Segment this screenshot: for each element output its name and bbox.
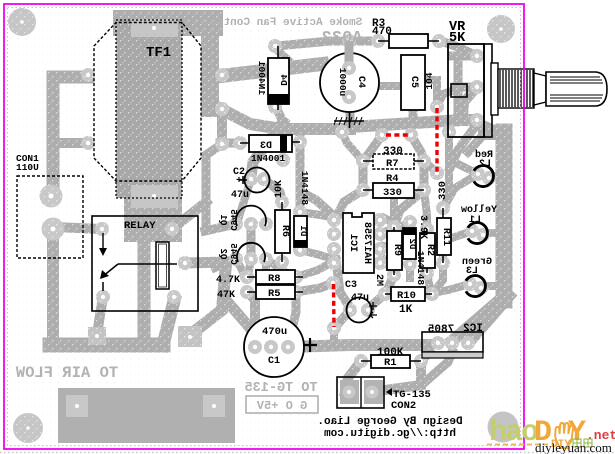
node C1 pads (248, 340, 295, 354)
capacitor C5 (401, 55, 425, 110)
wire pot bottom into right band (480, 124, 504, 134)
svg-text:1N4148: 1N4148 (415, 251, 426, 286)
wire R9 bottom to R10 left (386, 275, 394, 293)
wire D1 bottom to IC1 (300, 250, 336, 260)
svg-text:1N4001: 1N4001 (251, 153, 286, 164)
node TF1 side pads (81, 68, 229, 151)
svg-text:1000u: 1000u (337, 68, 348, 97)
svg-text:C3: C3 (345, 280, 357, 291)
wire R10 left to C3 right (371, 294, 385, 306)
relay contact arrow (99, 233, 107, 256)
wire TF1 bottom through relay to bar (138, 210, 151, 345)
wire D3 right pad up to band (296, 129, 305, 142)
svg-text:L3: L3 (466, 266, 478, 277)
wire TF1 right pads band (217, 109, 227, 144)
node R6 pads (275, 195, 289, 269)
node D4 pads (268, 39, 282, 114)
wire TF1 right pads column (201, 25, 219, 108)
svg-text:Q2: Q2 (218, 249, 228, 260)
svg-text:1K: 1K (399, 304, 413, 316)
svg-text:470: 470 (372, 26, 392, 38)
node relay pads (95, 222, 192, 304)
wire jumper W3 bottom to C1 run (330, 328, 338, 345)
node CON1 pads (40, 185, 65, 241)
wire Q2 mid to R8 left (248, 259, 251, 276)
svg-text:TO AIR FLOW: TO AIR FLOW (15, 364, 118, 382)
wire D3 right pad down to D1 top (296, 142, 305, 212)
node square pad S2 (178, 326, 202, 347)
wire IC1 pin3 stub (384, 246, 398, 249)
LED L3 (466, 276, 486, 297)
svg-text:7805: 7805 (427, 324, 454, 336)
wire C2 right to R6 top (264, 179, 282, 200)
wire IC1 pin to R9 bottom (384, 260, 392, 270)
node VR pot pads (470, 49, 484, 127)
svg-text:47u: 47u (351, 293, 369, 304)
bottom heatsink bar (58, 388, 235, 443)
transistor Q1 (236, 206, 266, 226)
wire bar up to relay bottom-right pad (163, 301, 174, 345)
capacitor C1 (244, 317, 317, 377)
resistor R7 (363, 154, 424, 169)
wire pot bottom diagonals (450, 124, 477, 168)
svg-text:TO TG-135: TO TG-135 (245, 381, 318, 396)
svg-text:470u: 470u (262, 326, 287, 338)
svg-text:4.7K: 4.7K (216, 275, 240, 286)
svg-text:2M: 2M (373, 274, 384, 286)
LED L2 (474, 166, 494, 187)
diode D2 vertical (403, 228, 416, 259)
svg-text:D2: D2 (407, 239, 417, 250)
wire band to pot lower pad (350, 120, 474, 127)
potentiometer threaded bushing (498, 69, 534, 108)
wire D3 left pad stub (220, 139, 240, 148)
wire R1 left to CON2 pad (345, 361, 361, 392)
wire pad 411 up (407, 125, 416, 135)
potentiometer shaft (534, 72, 607, 106)
node square pad S1 (88, 327, 106, 345)
node jumper W1 pads (375, 128, 418, 142)
wire right edge vertical band (496, 132, 513, 300)
wire IC1 pin1 to R9 (384, 218, 394, 223)
wire R11 bottom to R10 right (434, 259, 443, 292)
wire pad 382 down-diagonals to R7 (363, 135, 382, 161)
node R11 pads (436, 201, 450, 270)
node C2 pads (244, 172, 271, 186)
wire C2 left pad down to Q1 (238, 179, 251, 220)
wire LED L2 right to band (489, 172, 505, 180)
wire C1 left pad up to R5 (249, 293, 255, 347)
wire D4 top stub (275, 48, 288, 60)
wire band top under pot (484, 128, 504, 140)
wire CON2 right pad to R1 right (378, 361, 421, 391)
svg-text:RELAY: RELAY (124, 220, 156, 232)
wire diagonal into IC2 pad 2 (469, 296, 509, 342)
svg-text:R2: R2 (424, 244, 435, 256)
svg-text:330: 330 (437, 181, 449, 200)
svg-text:diyleyuan.com: diyleyuan.com (535, 440, 612, 454)
op-amp IC1 outline (343, 213, 374, 273)
wire D2 bottom stub (406, 264, 414, 278)
wire LED L3 left to R10 right (433, 284, 470, 293)
svg-text:330: 330 (383, 187, 402, 199)
svg-text:C4: C4 (355, 76, 366, 88)
svg-text:http://gc.digitu.com: http://gc.digitu.com (324, 428, 456, 440)
wire Q1 middle stub (247, 224, 256, 259)
svg-text:TF1: TF1 (146, 45, 171, 61)
svg-text:Smoke Active Fan Control: Smoke Active Fan Control (203, 17, 362, 29)
wire left rail from TF1 pad to CON1 (53, 77, 88, 196)
wire jumper W1 (386, 133, 408, 136)
diode D4 (268, 46, 289, 110)
resistor R8 (247, 270, 303, 284)
watermark circle (488, 412, 519, 443)
wire pot internal vertical (454, 56, 463, 120)
svg-text:Q1: Q1 (218, 214, 228, 225)
svg-text:47K: 47K (217, 290, 235, 301)
resistor R11 vertical (437, 208, 451, 263)
wire R5 right to red jumper top (296, 283, 333, 292)
svg-text:1N4001: 1N4001 (256, 61, 267, 96)
wire relay top-right to TF1 bottom pad (172, 202, 206, 229)
node Q2 pads (229, 252, 273, 266)
connector CON2 (337, 377, 392, 408)
node C1 pads over body (248, 340, 295, 354)
wire pot pad 2 left (455, 83, 477, 92)
wire pot pad 1 left (452, 52, 477, 61)
node R7 pads (356, 154, 431, 168)
resistor R2 vertical (420, 229, 435, 273)
wire LED L1 right to band (483, 229, 505, 237)
svg-text:330: 330 (383, 146, 403, 158)
wire diagonal TF1 to C4 (221, 64, 322, 76)
wire LED L3 right to band (481, 282, 505, 290)
node R1 pads (354, 354, 428, 368)
node C4 pads (342, 34, 356, 104)
svg-text:104: 104 (424, 72, 435, 89)
svg-text:110U: 110U (16, 162, 39, 173)
wire IC1 pin2 to D2 top (384, 223, 408, 232)
wire C4 top pad up (345, 41, 354, 68)
svg-text:L2: L2 (479, 159, 491, 170)
resistor R4 (363, 183, 424, 198)
node D1 pads (293, 205, 307, 257)
wire Q2 pad to R8 (236, 259, 244, 274)
wire TF1 top blob (126, 10, 210, 36)
svg-text:R11: R11 (440, 228, 451, 246)
resistor R6 vertical (275, 202, 290, 262)
node C5 pads (406, 60, 420, 104)
node R4 pads (356, 183, 431, 197)
wire square pad S2 to relay right (190, 264, 226, 335)
wire TF1 bottom blob to relay (124, 198, 182, 213)
wire band bottom to IC2 (425, 352, 452, 382)
node C4 pads over body (342, 61, 356, 104)
wire Q1 pads down (247, 228, 255, 242)
box G O +5V (246, 396, 318, 413)
svg-text:5K: 5K (449, 31, 466, 46)
svg-text:C945: C945 (228, 209, 238, 231)
wire R4 right down to R9 top (394, 190, 424, 227)
relay switch lever (100, 264, 177, 291)
resistor R10 (385, 287, 432, 301)
node D2 pads (403, 215, 417, 271)
node R9 pads (387, 220, 401, 282)
wire Q2 left pad stub (215, 259, 236, 268)
svg-text:R6: R6 (279, 225, 290, 237)
wire pot middle pad (463, 87, 477, 117)
wire C3 left to red jumper bottom (334, 310, 350, 328)
wire IC1 top-left up-left (303, 193, 336, 218)
relay K1 outline (92, 216, 198, 311)
svg-text:R5: R5 (268, 288, 281, 300)
wire R7 left up to band (342, 132, 363, 161)
mounting hole bottom-left (13, 413, 43, 443)
wire Q1 left pad to relay (205, 224, 236, 231)
capacitor C2 (239, 168, 270, 193)
svg-text:CON2: CON2 (391, 400, 416, 412)
node IC1 pin pads (327, 213, 387, 270)
svg-text:D1: D1 (298, 225, 308, 236)
node R8 pads (240, 270, 303, 284)
watermark hand glyph (555, 423, 573, 448)
svg-text:10K: 10K (274, 180, 285, 198)
node C3 pads (343, 303, 375, 317)
potentiometer VR body (448, 44, 492, 137)
mounting hole top-left (8, 8, 36, 36)
LED L1 (468, 223, 488, 244)
svg-text:L1: L1 (469, 215, 481, 226)
wire LED L1 left to R2 (434, 231, 472, 242)
capacitor C4 (320, 53, 379, 128)
svg-text:Design By George Liao.: Design By George Liao. (317, 416, 462, 428)
svg-text:D4: D4 (278, 74, 289, 86)
wire D1 top to IC1 (300, 212, 336, 218)
node R10 pads (378, 287, 439, 301)
wire IC1 left bottom to C3 (336, 260, 349, 306)
wire pad 411 to R7 right (411, 135, 424, 161)
wire R2 bottom stub (427, 273, 430, 288)
svg-text:G O +5V: G O +5V (256, 399, 307, 413)
wire TF1 bottom to relay top (128, 201, 142, 216)
watermark cn glyphs (573, 439, 592, 447)
wire bottom horizontal bar (50, 338, 163, 353)
wire C5 bottom to band (409, 97, 418, 122)
resistor R3 (378, 34, 439, 48)
svg-text:IC1: IC1 (347, 234, 358, 252)
wire CON1 top pad to relay left pad (53, 227, 102, 229)
watermark dashed line (487, 444, 548, 446)
wire C1 to IC2 long run (288, 345, 428, 347)
wire relay right pad to C1 (185, 262, 226, 263)
svg-text:R1: R1 (384, 357, 397, 369)
relay coil (156, 242, 169, 289)
svg-text:R4: R4 (386, 173, 399, 185)
transformer TF1 outline octagon (94, 23, 201, 182)
diode D3 (240, 135, 300, 152)
node R5 pads (240, 285, 303, 299)
svg-text:C1: C1 (268, 356, 280, 367)
mounting hole top-right (487, 15, 515, 43)
node jumper W3 pads (326, 276, 341, 335)
wire R1 right to IC2 (421, 352, 430, 361)
wire R4 left down to IC1 (336, 190, 363, 218)
resistor R9 vertical (387, 227, 402, 275)
svg-text:HA17358: HA17358 (361, 222, 372, 264)
wire vertical to R11 top (444, 132, 449, 205)
svg-text:47u: 47u (231, 190, 249, 201)
svg-text:IC2: IC2 (463, 323, 483, 335)
wire D3 left pad down relay right (206, 144, 222, 228)
wire R4 right to R2 top (424, 190, 427, 229)
wire C4 to C5 (379, 82, 401, 90)
potentiometer flange (491, 63, 498, 115)
svg-text:D3: D3 (260, 141, 272, 152)
connector CON1 outline (17, 176, 83, 258)
wire Q2 right to R8 right (266, 259, 296, 277)
node junction pad (276, 153, 290, 167)
svg-text:R9: R9 (391, 244, 402, 256)
wire pot top pad to R3 right (441, 41, 477, 56)
transistor Q2 (237, 243, 265, 262)
wire TF1 left lower pad stub (53, 138, 88, 148)
wire LED L2 left to R11 top (445, 174, 478, 205)
node LED L1 pads (465, 224, 490, 242)
wire C5 right to jumper top (424, 80, 437, 104)
node IC2 pads (431, 336, 475, 350)
wire D4 top to R3 left run (277, 41, 374, 46)
wire relay to C1 left (226, 300, 250, 328)
svg-text:A032: A032 (322, 29, 363, 48)
wire diagonal down to C2 left pad (251, 122, 283, 177)
capacitor C3 (347, 298, 378, 323)
node R2 pads (420, 222, 434, 280)
wire R8 right to IC1 (296, 260, 336, 277)
wire pot pad 3 left (456, 116, 477, 125)
svg-text:C945: C945 (228, 243, 238, 265)
wire pad 382 up (378, 125, 387, 135)
wire Q2 right pad down (262, 259, 270, 272)
wire TF1 right to band under C4 (221, 109, 350, 129)
node jumper W2 pads (430, 100, 444, 180)
node D3 pads (233, 135, 307, 150)
wire D4 bottom stub (276, 107, 283, 122)
wire jumper W3 (332, 284, 336, 327)
resistor R1 (361, 355, 421, 368)
resistor R5 (247, 285, 303, 299)
svg-text:R7: R7 (386, 158, 399, 170)
wire C4 bottom stem (346, 112, 355, 129)
svg-text:3.9K: 3.9K (417, 215, 428, 239)
wire C4 top pad up over circle (345, 41, 354, 68)
regulator IC2 outline (422, 332, 483, 358)
svg-text:+: + (236, 176, 242, 187)
board border bottom dotted gray (0, 452, 615, 454)
node R3 pads (371, 34, 446, 48)
svg-text:C5: C5 (408, 76, 419, 88)
diode D1 vertical (294, 216, 307, 247)
svg-text:R8: R8 (268, 273, 281, 285)
node Q1 pads (229, 217, 273, 231)
wire R7 right to jumper pad (424, 161, 437, 172)
wire relay bottom-left pad to square pad S1 (97, 297, 103, 334)
wire C1 mid pad up (288, 292, 296, 347)
node LED L3 pads (463, 277, 488, 295)
svg-text:1N4148: 1N4148 (299, 171, 310, 206)
wire jumper top pad stub (437, 88, 460, 107)
wire CON1 lower pad down to bottom bar (47, 229, 59, 340)
wire diagonal into IC2 pad (452, 298, 502, 341)
wire R4 row to R9 top vertical (390, 193, 398, 227)
node LED L2 pads (471, 167, 496, 185)
wire R7 left to R4 left (359, 161, 368, 190)
node stub pads (335, 125, 456, 139)
svg-text:R10: R10 (397, 290, 416, 302)
wire R7 right to R4 right (420, 161, 429, 190)
wire jumper W2 (435, 108, 438, 172)
wire LED L2 left diagonal (458, 164, 478, 174)
transformer TF1 body (116, 19, 182, 208)
